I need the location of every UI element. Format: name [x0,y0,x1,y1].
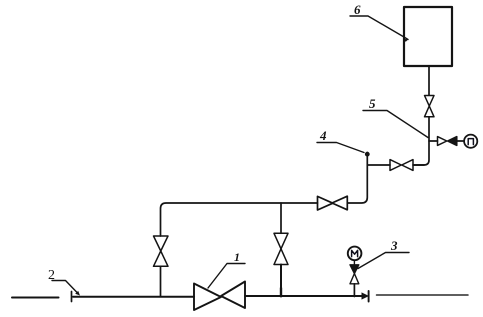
svg-text:5: 5 [369,96,376,111]
wire: branch to pressure gauge P [429,140,438,142]
svg-text:1: 1 [234,250,240,264]
valve V4 on horizontal line y=165 [390,160,413,171]
hourglass valve on mid drop [274,233,288,264]
gauge P (circle instrument) [464,135,477,148]
wire: main line right of valve V1 [245,295,364,297]
wire [353,260,355,265]
wire: separate right segment of bottom line [377,294,469,296]
gauge M (circle instrument) [348,247,362,261]
label 1 [208,250,245,288]
pipe break tick at left [71,292,73,302]
svg-text:6: 6 [354,2,361,17]
label 4 [317,128,364,153]
label 6 [350,2,408,42]
small valve under gauge M [350,265,359,284]
hourglass valve on left drop [154,236,169,266]
svg-text:4: 4 [319,128,327,143]
wire: vertical drop from node 4 [347,153,367,204]
wire [457,140,464,142]
wire: mid drop to main line [280,265,282,297]
valve V3 on line y=203 [318,196,348,210]
tank T (item 6) [404,7,452,66]
wire: horizontal line y=203 to left corner [161,203,318,236]
wire: main line left section [73,296,194,298]
wire: pipe from valve V5 down to lower corner [414,117,429,165]
label 5 [363,96,428,138]
wire: left drop to main line [160,266,162,296]
label 2 [48,268,80,296]
wire: riser to gauge M [353,284,355,297]
node 4 junction dot [365,152,370,157]
flow arrow + break tick at main line end [362,291,370,302]
wire: far-left stub of main line [12,297,59,299]
wire: horizontal line at y=165 [367,164,390,166]
main valve V1 (large) [194,282,245,311]
junction tick at mid drop [280,288,282,296]
wire: pipe from tank bottom [428,66,430,95]
wire: mid drop from line y=203 [280,203,282,233]
label 3 [358,238,409,269]
svg-text:3: 3 [390,238,398,253]
valve at gauge P branch [438,137,457,146]
valve V5 below tank [425,96,435,117]
